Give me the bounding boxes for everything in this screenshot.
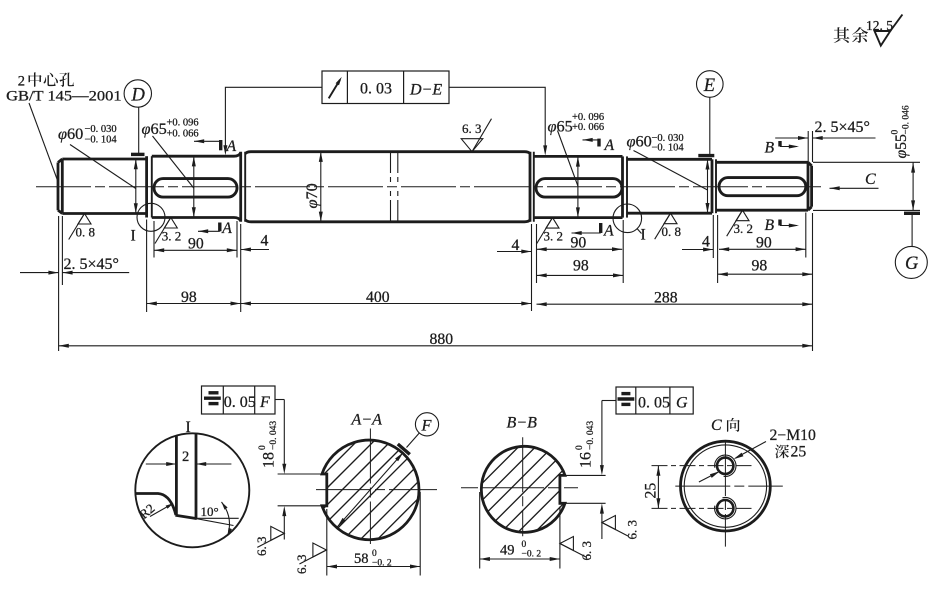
svg-text:98: 98 [752, 257, 768, 274]
svg-text:0. 05: 0. 05 [224, 394, 256, 411]
svg-text:A: A [226, 138, 237, 155]
svg-text:0: 0 [575, 445, 585, 450]
datum G [904, 212, 920, 215]
svg-text:10°: 10° [201, 504, 219, 519]
label R2 [150, 504, 172, 517]
dimension 90 left keyway [154, 249, 237, 251]
svg-text:−0. 046: −0. 046 [902, 105, 912, 134]
roughness 6.3 on 16 dim [602, 516, 616, 530]
dimension 2.5x45 right [807, 131, 809, 162]
svg-text:0: 0 [258, 445, 268, 450]
section B-B outline [481, 446, 565, 532]
dimension 2.5x45 left [58, 216, 60, 351]
dimension 98 right section [718, 273, 813, 275]
roughness 3.2 on φ65 left [164, 218, 177, 229]
svg-text:φ65: φ65 [142, 119, 167, 138]
shaft section φ60 right [627, 159, 712, 213]
svg-text:0. 05: 0. 05 [638, 395, 670, 412]
leader from frame to φ65 left [225, 87, 322, 147]
wire main centerline [36, 186, 822, 188]
section A-A outline [322, 440, 419, 540]
roughness 3.2 on φ65 right [546, 218, 559, 229]
svg-text:−0. 043: −0. 043 [586, 421, 596, 450]
svg-text:0: 0 [522, 540, 527, 550]
dimension 58 [326, 509, 328, 576]
svg-text:+0. 066: +0. 066 [572, 122, 604, 133]
svg-text:−0. 030: −0. 030 [85, 124, 117, 135]
dimension 25 hole spacing [657, 466, 659, 509]
svg-text:6. 3: 6. 3 [579, 541, 594, 561]
keyway right (φ55) [719, 178, 806, 196]
svg-text:90: 90 [756, 235, 772, 252]
label φ60 right leader [634, 151, 708, 191]
dimension φ70 [320, 152, 322, 222]
svg-text:18: 18 [261, 452, 278, 468]
svg-text:0. 8: 0. 8 [76, 225, 96, 240]
section mark A top-right [583, 139, 600, 141]
svg-text:880: 880 [430, 331, 454, 348]
svg-text:16: 16 [578, 452, 595, 468]
svg-text:3. 2: 3. 2 [162, 229, 182, 244]
shaft section φ55 right end [716, 162, 808, 210]
svg-text:0. 03: 0. 03 [360, 81, 392, 98]
svg-text:98: 98 [181, 289, 197, 306]
keyway left (φ65) [154, 179, 237, 198]
shaft section φ65 left [152, 153, 241, 221]
svg-text:I: I [641, 227, 646, 244]
svg-text:25: 25 [791, 444, 807, 461]
svg-text:90: 90 [188, 236, 204, 253]
svg-text:3. 2: 3. 2 [544, 229, 564, 244]
svg-text:0: 0 [891, 130, 901, 135]
relief groove at φ65/φ70 shoulder [239, 152, 242, 222]
svg-text:−0. 2: −0. 2 [372, 559, 392, 569]
svg-text:C: C [865, 171, 876, 188]
roughness 6.3 on keyway flat A-A [313, 543, 327, 557]
detail I angle arc [222, 502, 230, 536]
leader from frame to φ65 right [449, 87, 545, 148]
svg-text:4: 4 [702, 234, 710, 251]
dimension φ60 right [707, 159, 709, 213]
dimension 4 center [497, 251, 532, 253]
svg-text:φ60: φ60 [58, 124, 83, 143]
view arrow C [830, 187, 879, 189]
section B-B keyway extension lines [564, 474, 606, 476]
keyway center (φ65 right) [536, 179, 622, 198]
shaft section φ70 [245, 152, 530, 222]
section A-A centerlines [316, 489, 437, 491]
svg-text:B: B [765, 139, 775, 156]
svg-text:−0. 104: −0. 104 [85, 135, 118, 146]
dimension 880 overall [59, 345, 813, 347]
roughness 6.3 on 18 dim [271, 526, 285, 540]
shaft section φ60 left [62, 159, 146, 214]
dimension φ60 left [135, 159, 137, 214]
svg-text:φ65: φ65 [548, 117, 573, 136]
datum F circle [407, 433, 420, 448]
detail I groove profile [175, 436, 178, 515]
svg-text:−0. 104: −0. 104 [652, 143, 685, 154]
label φ55 0/-0.046 rotated [891, 105, 912, 158]
svg-text:0. 8: 0. 8 [662, 224, 682, 239]
svg-text:−0. 2: −0. 2 [522, 550, 542, 560]
svg-text:4: 4 [512, 237, 520, 254]
relief groove at φ70/φ65 right shoulder [529, 152, 532, 222]
roughness 3.2 on φ55 [736, 210, 749, 221]
dimension 288 [537, 303, 813, 305]
svg-text:E: E [703, 76, 715, 96]
svg-text:D: D [131, 86, 146, 106]
svg-text:F: F [421, 416, 433, 435]
svg-text:4: 4 [261, 233, 269, 250]
svg-text:F: F [259, 394, 270, 411]
svg-text:90: 90 [571, 235, 587, 252]
tapped hole M10 upper [717, 458, 733, 474]
detail circle I right [613, 204, 642, 233]
svg-text:3. 2: 3. 2 [734, 221, 754, 236]
relief groove at φ65/φ60 right shoulder [621, 156, 624, 217]
dimension 98 center section [537, 274, 624, 276]
svg-text:2: 2 [182, 449, 189, 465]
extension lines φ55 [813, 161, 920, 163]
svg-text:D−E: D−E [409, 82, 442, 99]
dimension 18 keyway [283, 400, 285, 468]
svg-text:+0. 066: +0. 066 [167, 129, 199, 140]
label φ65 left leader [153, 136, 194, 188]
roughness 0.8 on φ60 left [78, 214, 91, 225]
dimension 90 right keyway [719, 248, 806, 250]
svg-text:B−B: B−B [507, 415, 538, 432]
svg-text:φ55: φ55 [893, 134, 910, 159]
detail I circle [135, 433, 249, 547]
relief groove at φ60/φ65 shoulder [145, 156, 148, 217]
svg-text:G: G [676, 395, 688, 412]
roughness 0.8 on φ60 right [664, 213, 677, 224]
svg-text:I: I [131, 228, 136, 245]
svg-text:A: A [221, 220, 232, 237]
svg-text:G: G [905, 254, 918, 274]
svg-text:−0. 043: −0. 043 [269, 421, 279, 450]
tolerance frame 0.05 F [202, 386, 276, 414]
dimension 90 center keyway [537, 248, 623, 250]
dimension φ65 right [577, 156, 579, 217]
roughness 6.3 on φ70 [461, 139, 483, 152]
datum F diameter line [337, 452, 403, 527]
svg-text:GB/T 145—2001: GB/T 145—2001 [6, 89, 122, 105]
datum F tangent bar [398, 444, 410, 454]
view C shaft end face circles [681, 441, 771, 531]
svg-text:2−M10: 2−M10 [770, 427, 816, 444]
break lines in φ70 [390, 152, 392, 222]
label φ65 right leader [558, 131, 578, 187]
detail I 10deg sloped line [196, 519, 234, 526]
dimension 4 left [241, 249, 269, 251]
svg-text:2. 5×45°: 2. 5×45° [815, 119, 870, 136]
svg-text:400: 400 [366, 289, 390, 306]
svg-text:49: 49 [500, 543, 515, 559]
detail I 10deg reference line [197, 517, 239, 519]
section B-B centerlines [461, 487, 578, 489]
svg-text:A−A: A−A [351, 412, 383, 429]
svg-text:B: B [765, 217, 775, 234]
roughness 6.3 on keyway flat B-B [560, 537, 574, 551]
shaft section φ65 right [534, 156, 623, 217]
relief groove at φ60/φ55 shoulder [711, 159, 714, 213]
svg-text:φ60: φ60 [627, 132, 652, 151]
section mark A bottom-right [599, 223, 602, 233]
datum E [697, 71, 724, 98]
section mark A bottom-left [218, 223, 221, 232]
dimension 4 right [682, 249, 713, 251]
svg-text:2. 5×45°: 2. 5×45° [64, 256, 119, 273]
svg-text:6. 3: 6. 3 [294, 555, 309, 575]
svg-text:58: 58 [354, 551, 369, 567]
svg-text:A: A [604, 137, 615, 154]
section A-A keyway extension lines [278, 473, 324, 475]
label φ60 left leader [70, 145, 136, 189]
dimension 98 left section [147, 303, 241, 305]
tapped hole M10 lower [717, 500, 733, 516]
svg-text:A: A [603, 223, 614, 240]
extension lines below shaft [146, 220, 148, 313]
svg-text:25: 25 [643, 483, 660, 499]
dimension φ55 far right [912, 162, 914, 210]
svg-text:98: 98 [573, 258, 589, 275]
tolerance frame 0.05 G [616, 387, 693, 414]
section mark A top-left [194, 140, 221, 142]
dimension 49 [479, 492, 481, 569]
svg-text:6. 3: 6. 3 [254, 537, 269, 557]
dimension 400 [241, 303, 532, 305]
svg-text:0: 0 [372, 549, 377, 559]
svg-text:2: 2 [18, 74, 25, 90]
datum D [124, 80, 151, 107]
detail circle I left [137, 203, 165, 231]
dimension 2 groove width [146, 463, 177, 465]
svg-text:C: C [711, 417, 722, 434]
dimension 16 keyway [601, 401, 603, 469]
svg-text:6. 3: 6. 3 [462, 121, 482, 136]
note 其余 12.5 general roughness [834, 27, 850, 43]
svg-text:6. 3: 6. 3 [625, 520, 640, 540]
svg-text:288: 288 [654, 290, 678, 307]
tolerance frame 0.03 D-E [322, 71, 449, 104]
svg-text:φ70: φ70 [302, 183, 321, 208]
view C centerlines [675, 485, 783, 487]
svg-text:+0. 096: +0. 096 [167, 118, 199, 129]
dimension φ65 left [193, 156, 195, 217]
